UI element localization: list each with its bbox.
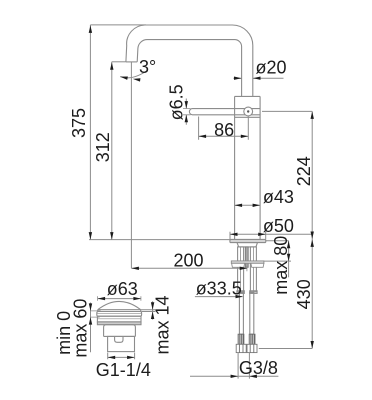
svg-text:312: 312 (93, 132, 113, 162)
svg-text:max 80: max 80 (271, 236, 291, 295)
svg-text:G3/8: G3/8 (239, 358, 278, 378)
svg-text:224: 224 (294, 156, 314, 186)
svg-text:max 14: max 14 (152, 295, 172, 354)
svg-text:G1-1/4: G1-1/4 (96, 360, 151, 380)
svg-text:ø6.5: ø6.5 (167, 84, 187, 120)
svg-text:3°: 3° (139, 57, 156, 77)
svg-text:ø43: ø43 (263, 187, 294, 207)
svg-text:ø33.5: ø33.5 (196, 279, 242, 299)
svg-text:430: 430 (294, 279, 314, 309)
svg-text:ø20: ø20 (256, 58, 287, 78)
svg-text:ø63: ø63 (107, 279, 138, 299)
svg-text:200: 200 (174, 251, 204, 271)
svg-text:86: 86 (214, 120, 234, 140)
svg-text:375: 375 (69, 108, 89, 138)
svg-text:ø50: ø50 (263, 216, 294, 236)
svg-text:max 60: max 60 (70, 299, 90, 358)
